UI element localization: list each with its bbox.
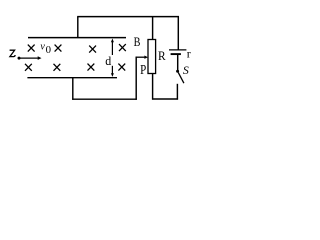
- wire: top horizontal to circuit: [77, 16, 179, 18]
- svg-text:d: d: [105, 53, 112, 68]
- slider label P: [140, 62, 146, 77]
- svg-text:r: r: [187, 46, 191, 60]
- dimension label d: [105, 53, 112, 68]
- dimension arrow d: bottom head: [111, 73, 114, 77]
- switch S: open blade: [178, 73, 184, 84]
- field label B: [134, 35, 141, 49]
- field cross row1 c4: [119, 44, 126, 51]
- bottom rail: [27, 77, 117, 79]
- field cross row2 c3: [88, 64, 95, 71]
- resistor top lead: [152, 17, 154, 40]
- field cross row1 c1: [28, 45, 35, 52]
- dimension arrow d: top head: [111, 39, 114, 43]
- wire: right side down to battery: [177, 17, 179, 50]
- slider P wire down: [135, 57, 137, 100]
- wire: bottom riser from bottom rail: [72, 78, 74, 100]
- wire: bottom segment from rails: [72, 98, 137, 100]
- wire: battery to switch: [177, 55, 179, 70]
- dimension arrow d: upper shaft: [111, 42, 113, 56]
- field cross row2 c2: [54, 64, 61, 71]
- svg-text:P: P: [140, 62, 146, 77]
- wire: top riser from top rail: [77, 17, 79, 38]
- battery cell: long positive plate: [169, 49, 186, 51]
- figure label 乙: [10, 50, 16, 56]
- wire: bottom segment under battery branch: [152, 98, 178, 100]
- field cross row2 c1: [25, 64, 32, 71]
- field cross row1 c2: [55, 45, 62, 52]
- svg-text:R: R: [158, 48, 166, 63]
- resistor R (rheostat) box: [148, 40, 156, 74]
- top rail: [28, 37, 126, 39]
- resistor label R: [158, 48, 166, 63]
- velocity v0 dot: [18, 57, 21, 60]
- velocity v0 arrow: [19, 57, 38, 59]
- wire: resistor bottom lead: [152, 74, 154, 100]
- svg-text:0: 0: [46, 44, 51, 56]
- svg-text:S: S: [183, 63, 189, 77]
- slider P arrow to resistor: [136, 56, 145, 58]
- field cross row1 c3: [89, 46, 96, 53]
- field cross row2 c4: [118, 64, 125, 71]
- battery cell: short negative plate: [171, 53, 181, 55]
- dimension arrow d: lower shaft: [111, 66, 113, 74]
- wire: switch lower contact down: [176, 84, 178, 100]
- svg-text:B: B: [134, 35, 141, 49]
- switch S: upper contact dot: [176, 70, 179, 73]
